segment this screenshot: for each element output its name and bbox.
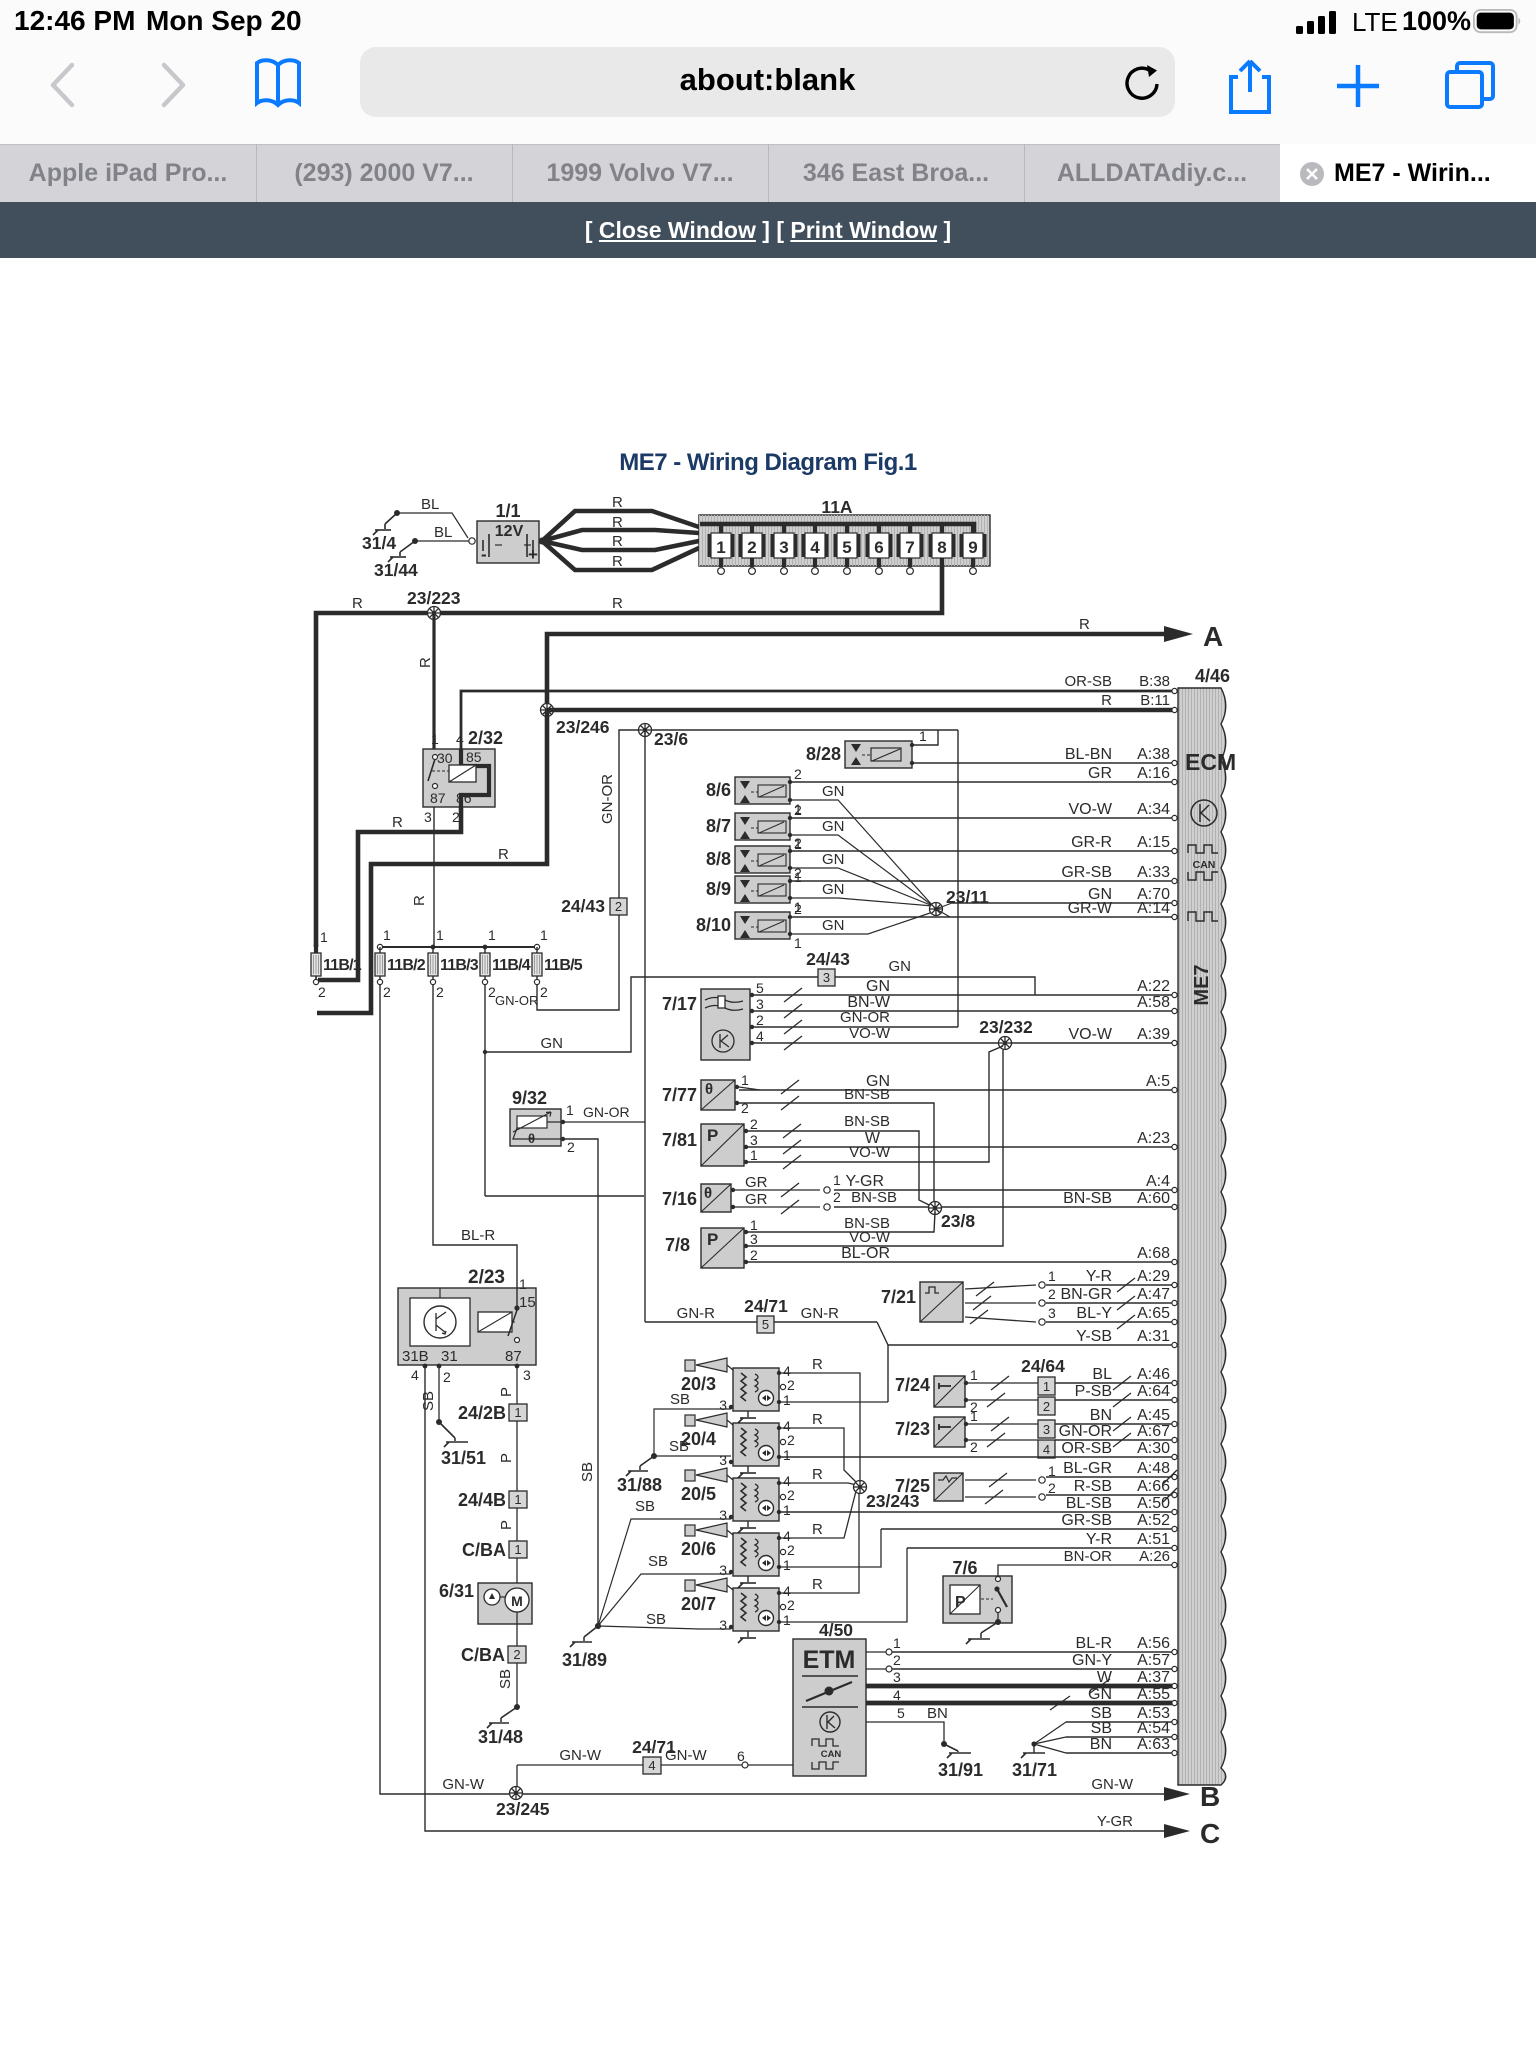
wire GN-OR A:67	[968, 1439, 1038, 1441]
svg-text:A: A	[1203, 621, 1223, 652]
svg-text:1: 1	[383, 927, 391, 943]
svg-text:R: R	[1079, 616, 1090, 633]
svg-text:BN-SB: BN-SB	[844, 1113, 890, 1130]
svg-text:3: 3	[719, 1562, 727, 1578]
svg-text:2: 2	[750, 1116, 758, 1132]
svg-text:4/46: 4/46	[1195, 666, 1230, 686]
svg-text:31/88: 31/88	[617, 1475, 662, 1495]
svg-text:2/32: 2/32	[468, 728, 503, 748]
svg-text:R: R	[812, 1411, 823, 1428]
fuse 11A:8	[940, 524, 944, 534]
wire 8/6 pin1 GN to node 23/11	[790, 800, 933, 906]
wire fuse8 to node 23/223 main R feed	[316, 565, 942, 946]
svg-text:23/232: 23/232	[979, 1017, 1033, 1037]
wire SB C/BA2 to ground 31/48	[516, 1663, 518, 1707]
svg-text:R: R	[612, 494, 623, 511]
svg-text:θ: θ	[704, 1185, 712, 1202]
svg-text:R: R	[812, 1466, 823, 1483]
svg-text:BL-BN: BL-BN	[1065, 746, 1112, 763]
svg-text:Y-R: Y-R	[1086, 1531, 1112, 1548]
svg-text:24/43: 24/43	[561, 896, 605, 916]
wire BL-R 11B/3 to 2/23 pin1	[433, 985, 517, 1288]
wire BN-W A:58	[754, 1010, 1172, 1012]
svg-text:A:38: A:38	[1137, 746, 1170, 763]
svg-text:A:57: A:57	[1137, 1652, 1170, 1669]
relay 2/32	[423, 749, 495, 807]
wire R bus coils to 23/243	[779, 1373, 860, 1480]
svg-text:2: 2	[383, 984, 391, 1000]
svg-text:4: 4	[411, 1367, 419, 1383]
svg-text:-: -	[481, 545, 487, 564]
svg-text:A:58: A:58	[1137, 994, 1170, 1011]
svg-text:VO-W: VO-W	[849, 1144, 891, 1161]
svg-text:GR-SB: GR-SB	[1061, 1512, 1112, 1529]
svg-text:GN-R: GN-R	[677, 1305, 715, 1322]
svg-text:A:39: A:39	[1137, 1026, 1170, 1043]
wire GN net to 11B/4	[485, 977, 818, 1052]
svg-text:31: 31	[441, 1348, 458, 1365]
wire BL-OR A:68	[748, 1261, 1172, 1263]
svg-text:2: 2	[756, 1012, 764, 1028]
svg-text:P: P	[707, 1230, 718, 1249]
svg-text:GN: GN	[822, 881, 845, 898]
svg-text:4: 4	[456, 731, 464, 747]
svg-text:A:46: A:46	[1137, 1366, 1170, 1383]
svg-text:R: R	[498, 846, 509, 863]
wire GN-OR 9/32 to 23/6 drop	[547, 1121, 645, 1123]
wire Y-GR A:4	[834, 1189, 1172, 1191]
svg-text:A:5: A:5	[1146, 1073, 1170, 1090]
svg-text:2: 2	[787, 1542, 795, 1558]
svg-text:23/245: 23/245	[496, 1799, 550, 1819]
svg-text:P: P	[498, 1387, 515, 1397]
ground 31/88	[651, 1453, 657, 1459]
svg-text:SB: SB	[648, 1553, 668, 1570]
wire BN-SB 7/81 to 23/8	[748, 1131, 931, 1206]
svg-text:23/243: 23/243	[866, 1491, 920, 1511]
svg-text:A:31: A:31	[1137, 1328, 1170, 1345]
svg-text:1: 1	[893, 1635, 901, 1651]
svg-text:4: 4	[756, 1028, 764, 1044]
svg-text:31/48: 31/48	[478, 1727, 523, 1747]
svg-text:1: 1	[783, 1392, 791, 1408]
svg-text:2: 2	[794, 802, 802, 818]
svg-text:BL-GR: BL-GR	[1063, 1460, 1112, 1477]
svg-text:8/8: 8/8	[706, 849, 731, 869]
wire BL A:46	[968, 1382, 1038, 1384]
svg-text:31B: 31B	[402, 1348, 429, 1365]
svg-text:1: 1	[970, 1367, 978, 1383]
svg-text:Y-GR: Y-GR	[845, 1173, 884, 1190]
svg-text:SB: SB	[497, 1669, 514, 1689]
svg-text:R: R	[1101, 692, 1112, 709]
svg-text:SB: SB	[646, 1611, 666, 1628]
wire SB to 20/6 pin3	[598, 1574, 731, 1626]
svg-text:5: 5	[762, 1317, 769, 1332]
svg-text:A:64: A:64	[1137, 1383, 1170, 1400]
svg-text:6: 6	[737, 1748, 745, 1764]
svg-text:5: 5	[897, 1705, 905, 1721]
wire 20/5 pin1 BL-SB A:50	[779, 1511, 1172, 1513]
node 23/243	[854, 1481, 867, 1494]
svg-text:4/50: 4/50	[819, 1620, 853, 1640]
svg-text:86: 86	[456, 790, 472, 806]
svg-text:8/6: 8/6	[706, 780, 731, 800]
wire SB to 20/7 pin3	[598, 1626, 731, 1629]
svg-text:A:65: A:65	[1137, 1305, 1170, 1322]
svg-text:A:56: A:56	[1137, 1635, 1170, 1652]
svg-text:23/8: 23/8	[941, 1211, 975, 1231]
svg-text:GR-R: GR-R	[1071, 834, 1112, 851]
svg-text:12V: 12V	[495, 523, 524, 540]
ground 31/44	[412, 538, 418, 544]
wire OR-SB B:38 relay85 to ECM	[461, 691, 1172, 749]
fuse 11A:1	[719, 524, 723, 534]
fuse 11B/2	[377, 944, 382, 949]
svg-text:GN: GN	[822, 818, 845, 835]
wire 23/6 drop to 9/32 and GN-R	[644, 730, 646, 1322]
svg-text:31/91: 31/91	[938, 1760, 983, 1780]
svg-text:Y-SB: Y-SB	[1076, 1328, 1112, 1345]
svg-text:6: 6	[874, 538, 883, 557]
svg-text:1: 1	[741, 1072, 749, 1088]
svg-text:A:30: A:30	[1137, 1440, 1170, 1457]
svg-text:A:48: A:48	[1137, 1460, 1170, 1477]
wire Y-SB drop to coil 20/3 pin1	[887, 1345, 889, 1402]
svg-text:2: 2	[794, 835, 802, 851]
svg-text:1: 1	[514, 1542, 521, 1557]
svg-text:7/21: 7/21	[881, 1287, 916, 1307]
wire 11B bus	[380, 946, 537, 948]
svg-text:R: R	[812, 1356, 823, 1373]
wire GN-OR 7/17 pin2	[754, 1026, 958, 1028]
svg-text:A:67: A:67	[1137, 1423, 1170, 1440]
svg-text:BN-OR: BN-OR	[1064, 1548, 1113, 1565]
svg-text:24/4B: 24/4B	[458, 1490, 506, 1510]
svg-text:BN-SB: BN-SB	[1063, 1190, 1112, 1207]
wire 8/7 pin1 GN to node 23/11	[790, 835, 933, 906]
wire SB to 20/5 pin3	[598, 1519, 731, 1626]
svg-text:VO-W: VO-W	[1068, 801, 1112, 818]
svg-text:VO-W: VO-W	[849, 1025, 891, 1042]
fuse 11B/4	[483, 945, 488, 950]
svg-text:85: 85	[466, 749, 482, 765]
svg-text:31/89: 31/89	[562, 1650, 607, 1670]
svg-text:A:23: A:23	[1137, 1130, 1170, 1147]
wire 20/6 pin1 GR-SB A:52	[779, 1529, 881, 1567]
wire P chain 2/23 pin3 down	[516, 1366, 518, 1404]
wire GN A:22	[754, 994, 1172, 996]
svg-text:A:45: A:45	[1137, 1407, 1170, 1424]
svg-text:1: 1	[320, 929, 328, 945]
svg-text:5: 5	[842, 538, 851, 557]
svg-text:GR-W: GR-W	[1068, 900, 1113, 917]
svg-text:GN: GN	[541, 1035, 564, 1052]
svg-text:7/81: 7/81	[662, 1130, 697, 1150]
svg-text:23/246: 23/246	[556, 717, 610, 737]
wire 20/7 pin1 Y-R A:51	[779, 1548, 907, 1622]
wire 8/10 pin1 GN to node 23/11	[790, 912, 933, 934]
svg-text:3: 3	[1048, 1305, 1056, 1321]
wire 20/4 pin1 OR-SB A:30	[779, 1456, 1172, 1458]
svg-text:2: 2	[833, 1189, 841, 1205]
svg-text:BN: BN	[1090, 1736, 1112, 1753]
svg-text:GR: GR	[745, 1174, 768, 1191]
node 23/246	[541, 704, 554, 717]
svg-text:GN: GN	[1088, 1686, 1112, 1703]
svg-text:R: R	[612, 553, 623, 570]
wire B:11 R to ECM	[547, 708, 1172, 713]
wire 2/23 pin4 to terminal C	[425, 1366, 1164, 1831]
svg-text:SB: SB	[1091, 1720, 1112, 1737]
svg-text:11A: 11A	[821, 497, 852, 517]
svg-text:7/24: 7/24	[895, 1375, 930, 1395]
tab bar	[0, 144, 1536, 203]
svg-text:20/7: 20/7	[681, 1594, 716, 1614]
svg-text:GN-OR: GN-OR	[583, 1104, 630, 1120]
wire GN A:70	[936, 903, 952, 909]
node 23/6	[639, 724, 652, 737]
svg-text:3: 3	[756, 996, 764, 1012]
wire VO-W A:39	[1011, 1042, 1172, 1044]
svg-text:BN-SB: BN-SB	[851, 1189, 897, 1206]
wire SB 20/3 20/4 to 31/88	[654, 1409, 731, 1456]
svg-text:31/71: 31/71	[1012, 1760, 1057, 1780]
wire ETM pin1 BL-R A:56	[886, 1649, 892, 1655]
svg-text:3: 3	[424, 809, 432, 825]
svg-text:8/28: 8/28	[806, 744, 841, 764]
svg-text:7/16: 7/16	[662, 1189, 697, 1209]
svg-text:VO-W: VO-W	[1068, 1026, 1112, 1043]
svg-text:R: R	[812, 1521, 823, 1538]
svg-text:GN-OR: GN-OR	[495, 993, 538, 1008]
svg-text:31/44: 31/44	[374, 560, 418, 580]
wire 20/3 pin1 row	[779, 1401, 888, 1403]
wire 23/246 lower feed	[317, 712, 547, 1013]
svg-text:GN: GN	[822, 783, 845, 800]
svg-text:2: 2	[794, 766, 802, 782]
svg-text:CAN: CAN	[1193, 859, 1216, 871]
svg-text:P: P	[707, 1126, 718, 1145]
wire GN A:5	[739, 1089, 1172, 1091]
svg-text:2: 2	[1048, 1480, 1056, 1496]
svg-text:A:22: A:22	[1137, 978, 1170, 995]
wire BN-SB A:60 through 23/8	[834, 1206, 930, 1208]
svg-text:31/4: 31/4	[362, 533, 396, 553]
svg-text:A:51: A:51	[1137, 1531, 1170, 1548]
svg-text:GN-W: GN-W	[442, 1776, 484, 1793]
svg-text:OR-SB: OR-SB	[1064, 673, 1112, 690]
wire BL-Y A:65	[965, 1317, 1036, 1322]
svg-text:W: W	[1097, 1669, 1113, 1686]
wire VO-W A:34	[792, 817, 1172, 819]
svg-text:C: C	[1200, 1818, 1220, 1849]
svg-text:87: 87	[430, 790, 446, 806]
svg-text:A:34: A:34	[1137, 801, 1170, 818]
svg-text:1: 1	[833, 1172, 841, 1188]
wire 11B/4 pin2 drop	[484, 985, 486, 1196]
svg-text:ME7: ME7	[1191, 964, 1213, 1005]
svg-text:A:68: A:68	[1137, 1245, 1170, 1262]
svg-text:BL: BL	[421, 496, 439, 513]
svg-text:9/32: 9/32	[512, 1088, 547, 1108]
svg-text:20/5: 20/5	[681, 1484, 716, 1504]
wire P-SB A:64	[968, 1399, 1038, 1401]
ground 31/4	[394, 510, 400, 516]
wire GN-OR drop to 7/17 pin2	[957, 730, 959, 1027]
fuse 11A:6	[877, 524, 881, 534]
svg-text:2: 2	[794, 865, 802, 881]
svg-text:24/71: 24/71	[632, 1737, 676, 1757]
svg-text:B: B	[1200, 1781, 1220, 1812]
svg-text:A:29: A:29	[1137, 1268, 1170, 1285]
ECM module 4/46 strip	[1178, 688, 1226, 1785]
svg-text:7/6: 7/6	[952, 1558, 977, 1578]
svg-text:3: 3	[750, 1231, 758, 1247]
svg-text:23/11: 23/11	[946, 887, 989, 907]
fuse 11B/3	[431, 945, 436, 950]
svg-text:2: 2	[787, 1487, 795, 1503]
svg-text:A:52: A:52	[1137, 1512, 1170, 1529]
svg-text:B:11: B:11	[1140, 692, 1170, 709]
wire 8/9 pin1 GN to node 23/11	[790, 898, 933, 906]
svg-text:A:37: A:37	[1137, 1669, 1170, 1686]
svg-text:GN: GN	[822, 851, 845, 868]
svg-text:2: 2	[540, 984, 548, 1000]
svg-text:R: R	[612, 595, 623, 612]
svg-text:C/BA: C/BA	[462, 1540, 506, 1560]
svg-text:4: 4	[648, 1758, 655, 1773]
svg-text:BN-SB: BN-SB	[844, 1086, 890, 1103]
svg-text:R: R	[612, 514, 623, 531]
svg-text:C/BA: C/BA	[461, 1645, 505, 1665]
wire 8/8 pin1 GN to node 23/11	[790, 868, 933, 906]
svg-text:A:26: A:26	[1139, 1548, 1170, 1565]
svg-text:7/8: 7/8	[665, 1235, 690, 1255]
svg-text:SB: SB	[670, 1391, 690, 1408]
wire SB 2/23 to ground 31/51	[438, 1366, 440, 1422]
svg-text:GN-OR: GN-OR	[1059, 1423, 1112, 1440]
svg-text:CAN: CAN	[821, 1749, 842, 1760]
svg-text:1: 1	[514, 1492, 521, 1507]
svg-text:24/2B: 24/2B	[458, 1403, 506, 1423]
svg-text:8: 8	[937, 538, 946, 557]
svg-text:15: 15	[519, 1294, 536, 1311]
svg-text:7/77: 7/77	[662, 1085, 697, 1105]
wire BN-GR A:47	[965, 1302, 1036, 1304]
wire BN-SB 7/77 to 23/8	[739, 1103, 935, 1205]
svg-text:2: 2	[970, 1439, 978, 1455]
svg-text:1: 1	[794, 935, 802, 951]
wire VO-W 7/8 to 23/232	[748, 1050, 1003, 1246]
wire VO-W to 23/232	[754, 1042, 1003, 1044]
svg-text:1: 1	[716, 538, 725, 557]
svg-text:2: 2	[443, 1369, 451, 1385]
wire GN-R	[645, 1321, 757, 1323]
svg-text:24/71: 24/71	[744, 1296, 788, 1316]
svg-text:P-SB: P-SB	[1075, 1383, 1112, 1400]
svg-text:23/223: 23/223	[407, 588, 461, 608]
svg-text:M: M	[511, 1593, 523, 1609]
svg-text:ECM: ECM	[1185, 749, 1236, 775]
svg-text:2: 2	[747, 538, 756, 557]
svg-text:7: 7	[905, 538, 914, 557]
svg-text:4: 4	[810, 538, 820, 557]
svg-text:23/6: 23/6	[654, 729, 688, 749]
svg-text:1: 1	[783, 1612, 791, 1628]
node 23/232	[999, 1037, 1012, 1050]
svg-text:BN: BN	[1090, 1407, 1112, 1424]
wire R-SB A:66	[965, 1496, 1036, 1498]
svg-text:BL-SB: BL-SB	[1066, 1495, 1112, 1512]
wire SB 9/32 to 31/89	[563, 1139, 598, 1626]
wire relay87 R to 11B bus	[433, 807, 435, 947]
svg-text:1/1: 1/1	[495, 501, 520, 521]
svg-text:P: P	[955, 1594, 966, 1611]
svg-text:BL-OR: BL-OR	[841, 1245, 890, 1262]
svg-text:1: 1	[514, 1405, 521, 1420]
svg-text:A:60: A:60	[1137, 1190, 1170, 1207]
wire 23/223 to relay pin30	[432, 613, 435, 749]
svg-text:A:33: A:33	[1137, 864, 1170, 881]
svg-text:A:15: A:15	[1137, 834, 1170, 851]
svg-text:11B/5: 11B/5	[544, 957, 583, 974]
wire BN A:45	[968, 1423, 1038, 1425]
svg-text:7/23: 7/23	[895, 1419, 930, 1439]
svg-text:GN-W: GN-W	[1091, 1776, 1133, 1793]
svg-text:2: 2	[750, 1247, 758, 1263]
node 23/11	[930, 903, 943, 916]
wire BL-BN A:38	[914, 762, 1172, 764]
svg-text:3: 3	[719, 1452, 727, 1468]
svg-text:R: R	[352, 595, 363, 612]
svg-text:3: 3	[719, 1397, 727, 1413]
svg-text:GR: GR	[745, 1191, 768, 1208]
node 23/245	[510, 1787, 523, 1800]
svg-text:8/7: 8/7	[706, 816, 731, 836]
svg-text:GN-R: GN-R	[801, 1305, 839, 1322]
wire GR-W A:14	[792, 916, 1172, 918]
svg-text:30: 30	[437, 750, 453, 766]
wire GN horizontal to GN-R feed	[485, 1195, 644, 1197]
wire BN-OR A:26	[998, 1565, 1172, 1576]
svg-text:VO-W: VO-W	[849, 1229, 891, 1246]
svg-text:2: 2	[794, 901, 802, 917]
svg-text:2: 2	[787, 1597, 795, 1613]
svg-text:3: 3	[750, 1132, 758, 1148]
svg-text:+: +	[528, 545, 538, 564]
svg-text:3: 3	[893, 1669, 901, 1685]
svg-text:1: 1	[1048, 1268, 1056, 1284]
svg-text:1: 1	[1043, 1379, 1050, 1394]
svg-text:Y-GR: Y-GR	[1097, 1813, 1133, 1830]
svg-text:8/9: 8/9	[706, 879, 731, 899]
svg-text:1: 1	[519, 1276, 527, 1292]
svg-text:GN-Y: GN-Y	[1072, 1652, 1112, 1669]
svg-text:R: R	[417, 657, 434, 668]
wire GN-OR 11B/5 to 23/6 line	[537, 730, 958, 1010]
fuse 11B/5	[534, 944, 539, 949]
svg-text:2: 2	[318, 984, 326, 1000]
svg-text:1: 1	[783, 1447, 791, 1463]
svg-text:BL-Y: BL-Y	[1076, 1305, 1112, 1322]
svg-text:11B/1: 11B/1	[323, 957, 362, 974]
svg-text:1: 1	[540, 927, 548, 943]
svg-text:1: 1	[970, 1408, 978, 1424]
svg-text:1: 1	[919, 728, 927, 744]
svg-text:3: 3	[719, 1617, 727, 1633]
close/print window bar	[0, 202, 1536, 258]
